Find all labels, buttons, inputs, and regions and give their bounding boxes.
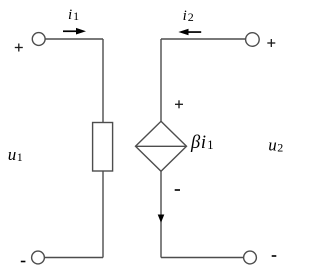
wire left vertical lower: [102, 171, 104, 258]
resistor (unlabeled rectangle): [93, 123, 113, 172]
current arrow i1: [63, 28, 86, 35]
dependent source CCCS diamond: [136, 121, 187, 171]
svg-text:i2: i2: [183, 8, 195, 24]
wire top-right horizontal: [161, 38, 246, 40]
current arrow i2: [178, 29, 201, 36]
label - (port 2 bottom): [272, 255, 277, 257]
wire right vertical upper: [160, 39, 162, 122]
wire bottom-right horizontal: [161, 257, 244, 259]
terminal port1 bottom: [32, 251, 45, 264]
label + (port 1 top): [15, 44, 23, 52]
label + (source top): [175, 100, 183, 108]
terminal port1 top: [32, 33, 45, 46]
current direction arrowhead on right branch: [158, 215, 165, 223]
svg-text:i1: i1: [68, 7, 80, 23]
label + (port 2 top): [267, 39, 275, 47]
label - (port 1 bottom): [21, 261, 26, 263]
label - (source bottom): [175, 189, 180, 191]
wire top-left horizontal: [45, 38, 103, 40]
wire bottom-left horizontal: [45, 257, 104, 259]
terminal port2 bottom: [244, 251, 257, 264]
wire right vertical lower: [160, 171, 162, 257]
wire left vertical upper: [102, 39, 104, 123]
terminal port2 top: [246, 33, 260, 47]
diamond horizontal bar: [136, 145, 187, 147]
